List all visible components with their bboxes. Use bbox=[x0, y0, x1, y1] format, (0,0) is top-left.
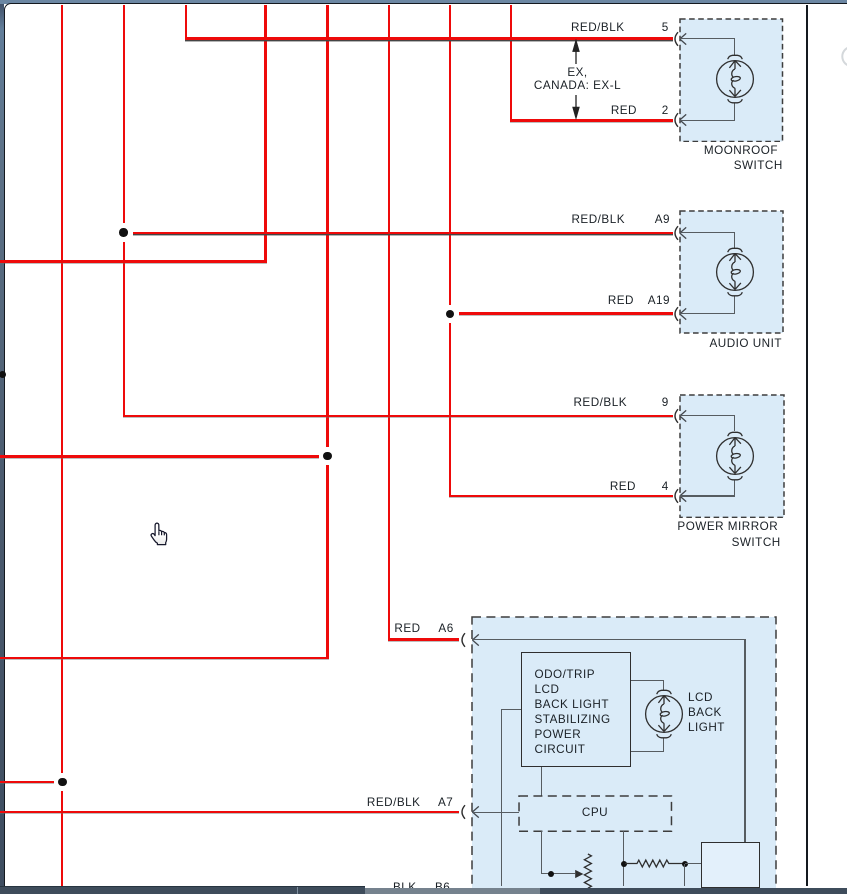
wire cpu left run bbox=[541, 873, 575, 874]
node junction pot wiper bbox=[548, 871, 554, 877]
power mirror switch box bbox=[679, 394, 785, 518]
label power mirror name line1 bbox=[677, 520, 778, 533]
wire bus V5 upper bbox=[326, 5, 329, 447]
CPU label bbox=[519, 806, 671, 819]
label pin4 number bbox=[662, 480, 669, 493]
wire bus V4 bbox=[264, 5, 267, 263]
node junction A9/V2 bbox=[119, 228, 127, 236]
wire bus V3 bbox=[185, 5, 187, 40]
connector terminal pin 2 bbox=[670, 111, 690, 129]
wire lcd loop top drop bbox=[663, 681, 664, 691]
wire audio internal top drop bbox=[734, 233, 735, 249]
gauge control module box (large, clipped bottom) bbox=[471, 616, 777, 894]
label A6 number bbox=[438, 622, 453, 635]
resistor (horizontal zigzag) bbox=[625, 856, 685, 871]
wire moonroof internal bottom bbox=[680, 120, 735, 121]
wire R to driver box bbox=[685, 863, 701, 864]
wire to moonroof pin2 bbox=[510, 119, 673, 122]
wire A7 internal run bbox=[472, 812, 519, 813]
node junction A19/V7 bbox=[446, 310, 454, 318]
wire A6 internal drop bbox=[744, 639, 745, 841]
wire to audio A9 bbox=[133, 232, 673, 234]
wire mirror internal bottom bbox=[680, 495, 735, 496]
wire branch to left edge y658 bbox=[0, 657, 329, 660]
node junction y781/V1 bbox=[58, 778, 66, 786]
label audio unit name bbox=[709, 337, 782, 350]
sheet right border bbox=[806, 5, 808, 886]
connector terminal pin 9 bbox=[670, 407, 690, 425]
wire bus V5 lower bbox=[326, 465, 329, 659]
wire bus V7 lower bbox=[449, 323, 452, 497]
driver box (bottom right, clipped) bbox=[701, 842, 761, 888]
wire odo box left drop bbox=[501, 710, 502, 886]
connector terminal pin 5 bbox=[670, 30, 690, 48]
ODO/TRIP LCD power circuit box bbox=[521, 652, 631, 767]
wire odo to cpu bbox=[541, 767, 542, 796]
wire stub to left edge y781 bbox=[0, 781, 54, 784]
node junction R right bbox=[682, 861, 688, 867]
wire cpu left drop bbox=[541, 831, 542, 874]
wire to mirror pin9 bbox=[123, 415, 673, 417]
wire bus V2 upper bbox=[123, 5, 125, 223]
audio unit box bbox=[679, 210, 784, 334]
label A6 wire color bbox=[394, 622, 420, 635]
wire to audio A19 bbox=[459, 312, 673, 315]
clipped label BLK (next row, cut off) bbox=[393, 881, 417, 894]
potentiometer wiper arrow bbox=[574, 868, 585, 880]
label pin2 number bbox=[662, 104, 669, 117]
wire mirror internal top bbox=[680, 415, 735, 416]
connector terminal pin A9 bbox=[670, 224, 690, 242]
ODO/TRIP box text bbox=[535, 668, 611, 758]
wire branch to left edge y456 bbox=[0, 455, 319, 458]
app background left strip bbox=[0, 4, 4, 886]
lamp audio illumination bbox=[714, 246, 756, 298]
label A7 number bbox=[438, 796, 453, 809]
wire mirror internal bottom rise bbox=[734, 480, 735, 497]
wire audio internal bottom rise bbox=[734, 296, 735, 313]
clipped label B6 (next row, cut off) bbox=[435, 881, 450, 894]
annotation double arrow bbox=[570, 39, 582, 120]
wire moonroof internal top bbox=[680, 38, 735, 39]
wire bus V1 lower bbox=[61, 791, 63, 886]
wire A6 internal run bbox=[472, 639, 745, 640]
label pin5 wire color bbox=[571, 21, 625, 34]
label pin9 number bbox=[662, 396, 669, 409]
connector terminal pin A19 bbox=[670, 305, 690, 323]
lamp LCD back light bbox=[643, 688, 685, 740]
LCD BACK LIGHT label bbox=[688, 691, 725, 736]
annotation EX, CANADA: EX-L bbox=[490, 66, 665, 93]
wire to gauge A6 bbox=[388, 638, 460, 641]
label pin9 wire color bbox=[573, 396, 627, 409]
label power mirror name line2 bbox=[732, 536, 781, 549]
app background top strip bbox=[0, 0, 847, 4]
wire lcd loop bottom rise bbox=[663, 738, 664, 751]
wire bus V2 lower bbox=[123, 242, 125, 417]
label A19 wire color bbox=[608, 294, 634, 307]
node junction R left bbox=[621, 861, 627, 867]
label pin2 wire color bbox=[611, 104, 637, 117]
bottom bar separator bbox=[297, 887, 299, 894]
wire odo box left branch bbox=[501, 709, 521, 710]
label A9 wire color bbox=[571, 213, 625, 226]
bottom bar light segment bbox=[365, 888, 540, 894]
label moonroof switch name line2 bbox=[734, 159, 783, 172]
connector terminal pin 4 bbox=[670, 487, 690, 505]
wire audio internal top bbox=[680, 232, 735, 233]
lamp mirror illumination bbox=[714, 430, 756, 482]
wire branch to left edge y262 bbox=[0, 260, 267, 263]
potentiometer resistive element (vertical zigzag, clipped) bbox=[583, 853, 593, 889]
label A9 number bbox=[655, 213, 670, 226]
wire to moonroof pin5 bbox=[185, 37, 673, 39]
wire moonroof internal top drop bbox=[734, 39, 735, 55]
wire cpu right drop bbox=[623, 831, 624, 886]
wire to mirror pin4 bbox=[449, 495, 673, 498]
wire bus V1 upper bbox=[61, 5, 63, 773]
node junction y456/V5 bbox=[323, 452, 331, 460]
lamp moonroof illumination bbox=[714, 53, 756, 105]
label pin5 number bbox=[662, 21, 669, 34]
wire bus V6 bbox=[388, 5, 390, 641]
faint circle (clipped) right edge bbox=[841, 46, 847, 67]
node junction left edge bbox=[0, 371, 6, 378]
connector terminal pin A7 bbox=[457, 803, 482, 821]
wire audio internal bottom bbox=[680, 313, 735, 314]
wire moonroof internal bottom rise bbox=[734, 103, 735, 120]
bottom bar (right portion) bbox=[365, 888, 847, 894]
wire bus V8 bbox=[510, 5, 513, 122]
bottom bar (left portion) bbox=[0, 886, 365, 894]
mouse hand cursor bbox=[149, 522, 169, 547]
wire lcd loop bottom bbox=[631, 751, 664, 752]
wire to gauge A7 bbox=[0, 811, 459, 813]
wire bus V7 upper bbox=[449, 5, 452, 305]
label moonroof switch name line1 bbox=[704, 144, 778, 157]
wire R right drop bbox=[684, 864, 685, 887]
connector terminal pin A6 bbox=[457, 631, 482, 649]
moonroof switch box bbox=[679, 18, 784, 143]
label A19 number bbox=[648, 294, 670, 307]
label pin4 wire color bbox=[610, 480, 636, 493]
label A7 wire color bbox=[367, 796, 421, 809]
CPU box bbox=[518, 795, 673, 832]
wire mirror internal top drop bbox=[734, 416, 735, 432]
wire lcd loop top bbox=[631, 680, 664, 681]
